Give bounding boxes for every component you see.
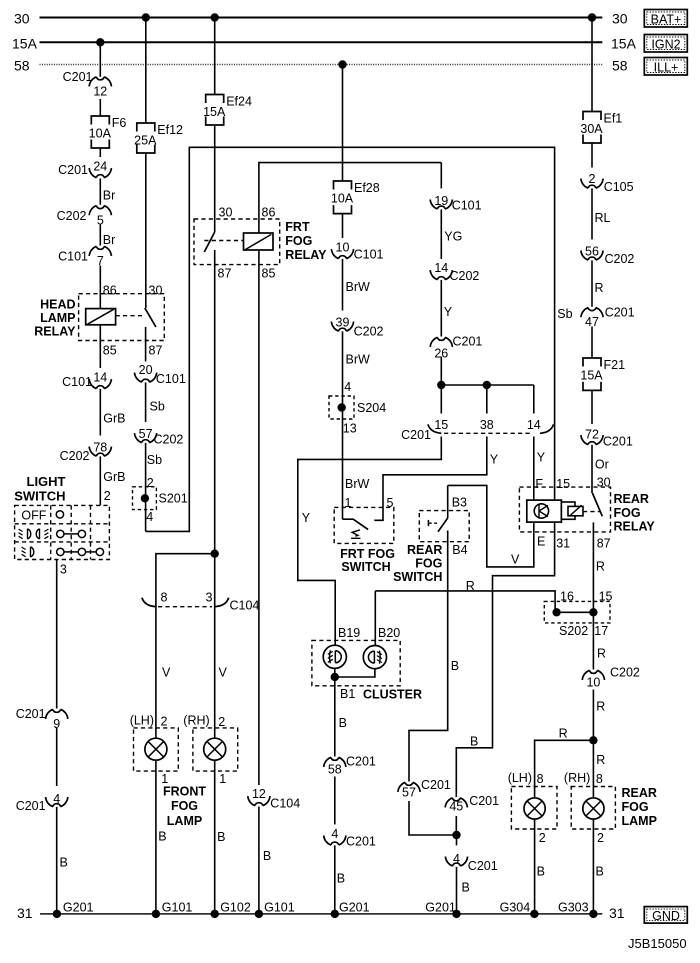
svg-text:C201: C201 xyxy=(469,794,499,808)
rear fog lamp RH dashed box xyxy=(571,787,615,830)
fuse F21 15A xyxy=(582,358,602,391)
V wire rear fog switch B3 to relay pin E xyxy=(448,485,534,567)
connector C104 pin 12 xyxy=(251,785,266,806)
svg-text:72: 72 xyxy=(585,428,599,442)
wire bus 58 to Ef28 xyxy=(342,65,344,182)
svg-text:10A: 10A xyxy=(331,192,354,206)
wire C201/58 to C201/4 xyxy=(334,777,336,846)
svg-text:58: 58 xyxy=(328,763,342,777)
wire to front fog RH xyxy=(214,554,216,728)
wire C201/47 to F21 xyxy=(591,327,593,359)
connector C105 pin 2 xyxy=(584,168,599,189)
svg-text:5: 5 xyxy=(387,496,394,510)
svg-text:RELAY: RELAY xyxy=(285,248,327,262)
svg-text:LAMP: LAMP xyxy=(622,814,657,828)
junction dot bus58 xyxy=(338,60,346,68)
wire B relay85 to ground G101 xyxy=(258,807,260,914)
svg-text:G303: G303 xyxy=(558,900,589,914)
svg-text:FOG: FOG xyxy=(622,800,649,814)
fuse Ef28 10A xyxy=(333,181,353,215)
front fog lamp LH bulb xyxy=(155,728,157,738)
rear fog relay contact blade xyxy=(592,493,602,516)
wire R S202/17 to C202/10 xyxy=(592,612,594,669)
wire Or C201/72 to rear fog relay 30 xyxy=(591,446,593,494)
connector C201 pin 24 xyxy=(93,157,108,178)
wire Ef24 to frt fog relay pin 30 xyxy=(214,125,216,232)
wire Ef12 to head lamp relay pin 30 xyxy=(145,153,147,308)
svg-text:15: 15 xyxy=(434,418,448,432)
svg-text:16: 16 xyxy=(560,589,574,603)
svg-text:C201: C201 xyxy=(453,335,483,349)
connector C202 pin 57 xyxy=(138,422,153,443)
terminal box ILL+ xyxy=(644,58,687,76)
svg-text:15A: 15A xyxy=(580,369,603,383)
head lamp relay dashed box xyxy=(79,294,165,341)
svg-text:R: R xyxy=(466,579,475,593)
svg-text:C101: C101 xyxy=(354,248,384,262)
svg-text:12: 12 xyxy=(252,787,266,801)
connector C201 pin 9 xyxy=(49,709,64,731)
svg-text:R: R xyxy=(559,727,568,741)
wire F6 to connector C201 pin 24 xyxy=(99,148,101,157)
wire C101/7 to head lamp relay pin 86 xyxy=(99,266,101,309)
cluster B19 fog indicator xyxy=(323,645,346,668)
svg-text:2: 2 xyxy=(218,715,225,729)
svg-text:REAR: REAR xyxy=(622,786,657,800)
svg-text:Sb: Sb xyxy=(150,400,165,414)
rear fog relay coil xyxy=(561,502,575,519)
svg-text:8: 8 xyxy=(537,772,544,786)
svg-text:30: 30 xyxy=(14,11,30,27)
svg-text:31: 31 xyxy=(17,905,33,921)
connector C201 pin 26 xyxy=(434,337,449,361)
svg-text:R: R xyxy=(596,753,605,767)
svg-text:14: 14 xyxy=(93,371,107,385)
svg-text:R: R xyxy=(596,700,605,714)
svg-text:C201: C201 xyxy=(346,834,376,848)
fuse Ef1 30A xyxy=(582,111,602,144)
svg-text:Y: Y xyxy=(302,511,311,525)
terminal box BAT+ xyxy=(644,10,687,28)
svg-text:25A: 25A xyxy=(134,134,157,148)
svg-text:FOG: FOG xyxy=(171,799,198,813)
svg-text:24: 24 xyxy=(93,160,107,174)
svg-text:G201: G201 xyxy=(63,900,94,914)
svg-text:Ef12: Ef12 xyxy=(157,123,183,137)
svg-text:C202: C202 xyxy=(605,252,635,266)
svg-text:12: 12 xyxy=(93,85,107,99)
svg-text:SWITCH: SWITCH xyxy=(393,570,442,584)
svg-text:R: R xyxy=(595,281,604,295)
frt fog relay contact blade xyxy=(204,232,214,252)
svg-text:BrW: BrW xyxy=(346,280,371,294)
svg-text:15A: 15A xyxy=(12,36,38,52)
svg-text:(LH): (LH) xyxy=(130,713,154,727)
svg-text:B: B xyxy=(537,865,545,879)
wire B to ground G201 left xyxy=(56,808,58,914)
rear fog relay pin 31 wire to B splice xyxy=(456,522,554,786)
svg-text:C201: C201 xyxy=(468,859,498,873)
svg-text:Sb: Sb xyxy=(147,453,162,467)
wire R C202/10 to junction xyxy=(592,690,594,741)
head lamp relay coil xyxy=(86,309,116,325)
svg-text:FOG: FOG xyxy=(285,234,312,248)
svg-text:87: 87 xyxy=(149,344,163,358)
svg-text:B: B xyxy=(451,659,459,673)
svg-text:J5B15050: J5B15050 xyxy=(628,936,687,951)
light switch park lamp icon row xyxy=(31,547,34,557)
svg-text:YG: YG xyxy=(444,230,462,244)
wire to rear fog RH xyxy=(592,740,594,786)
svg-text:2: 2 xyxy=(104,489,111,503)
frt fog relay pin 87 stub xyxy=(214,250,216,554)
ground G303 xyxy=(589,910,597,918)
svg-text:C201: C201 xyxy=(63,70,93,84)
wire 15A bus to F6 xyxy=(99,42,101,116)
connector C201 pin 4 lower xyxy=(327,824,342,845)
svg-text:13: 13 xyxy=(343,422,357,436)
ground G304 xyxy=(530,910,538,918)
wire Y C201/38 to frt fog switch pin 5 xyxy=(383,437,487,508)
wire C201/57 to splice junction xyxy=(409,801,457,835)
wire 86-line down to C101/19 xyxy=(440,163,442,210)
svg-text:2: 2 xyxy=(597,831,604,845)
wire R C202/56 to C201/47 xyxy=(591,261,593,307)
svg-text:G102: G102 xyxy=(220,900,251,914)
wire Ef1 to C105/2 xyxy=(591,143,593,189)
svg-text:15: 15 xyxy=(599,589,613,603)
svg-text:BAT+: BAT+ xyxy=(651,12,682,26)
wire BrW C202/39 to S204 xyxy=(342,332,344,519)
svg-text:15A: 15A xyxy=(203,105,226,119)
svg-text:GND: GND xyxy=(652,909,680,923)
svg-text:GrB: GrB xyxy=(103,470,125,484)
wire Br C201/24 to C202/5 xyxy=(99,179,101,205)
ground G201 right xyxy=(452,910,460,918)
junction dot bus30 Ef24 xyxy=(211,13,219,21)
wire C201/45 to splice junction xyxy=(455,786,457,797)
wire B to ground G201 right xyxy=(456,867,458,914)
head lamp relay pin 87 stub xyxy=(145,327,147,362)
svg-text:HEAD: HEAD xyxy=(40,297,75,311)
front fog lamp LH dashed box xyxy=(134,728,179,771)
junction dot on 15A line xyxy=(96,38,104,46)
svg-text:OFF: OFF xyxy=(21,508,46,522)
svg-text:RL: RL xyxy=(595,211,611,225)
wire head lamp relay 87 to C101/20 xyxy=(145,362,147,383)
svg-text:RELAY: RELAY xyxy=(614,519,656,533)
frt fog relay coil xyxy=(244,233,274,250)
svg-text:Sb: Sb xyxy=(557,307,572,321)
wire B1 cluster to C201/58 xyxy=(334,677,336,757)
rear fog relay coil-contact dashed link xyxy=(583,511,600,513)
svg-text:20: 20 xyxy=(139,363,153,377)
rear fog relay indicator bulb icon xyxy=(534,504,548,518)
wire Sb C202/57 to splice S201 xyxy=(145,444,147,532)
svg-text:G201: G201 xyxy=(425,900,456,914)
rear fog lamp LH dashed box xyxy=(511,787,557,830)
svg-text:Ef24: Ef24 xyxy=(226,95,252,109)
front fog lamp RH bulb xyxy=(214,728,216,738)
bus line 58 (ILL+) xyxy=(40,64,603,66)
rear fog switch dashed box xyxy=(419,511,469,542)
svg-text:17: 17 xyxy=(594,624,608,638)
connector C201 pin 72 xyxy=(584,424,599,445)
svg-text:31: 31 xyxy=(556,537,570,551)
svg-text:CLUSTER: CLUSTER xyxy=(363,687,422,701)
svg-text:B: B xyxy=(217,830,225,844)
svg-text:C201: C201 xyxy=(16,799,46,813)
svg-text:B: B xyxy=(263,849,271,863)
svg-text:30: 30 xyxy=(597,476,611,490)
svg-text:15: 15 xyxy=(556,477,570,491)
connector C101 pin 10 xyxy=(335,238,350,259)
bus line 15A (IGN2) xyxy=(40,41,603,43)
svg-text:GrB: GrB xyxy=(103,412,125,426)
svg-text:G201: G201 xyxy=(339,900,370,914)
svg-text:B3: B3 xyxy=(452,496,467,510)
svg-text:38: 38 xyxy=(480,418,494,432)
wire F21 to C201/72 xyxy=(591,390,593,445)
connector C201 pin 4 (pair) xyxy=(49,786,64,807)
svg-text:10: 10 xyxy=(336,241,350,255)
frt fog switch detent symbol xyxy=(351,530,360,539)
svg-text:F: F xyxy=(535,477,543,491)
svg-text:10: 10 xyxy=(586,676,600,690)
svg-text:(RH): (RH) xyxy=(564,771,590,785)
ground G201 left xyxy=(53,910,61,918)
svg-text:Y: Y xyxy=(444,305,453,319)
ground G101 second xyxy=(255,910,263,918)
cluster B20 fog indicator xyxy=(363,646,386,669)
connector C201 pin 57 lower xyxy=(401,782,416,800)
svg-text:C201: C201 xyxy=(401,428,431,442)
connector C202 pin 39 xyxy=(335,311,350,332)
wire C201/9 to C201/4 xyxy=(56,728,58,808)
svg-text:E: E xyxy=(537,534,545,548)
R wire relay 31/87 to cluster B20 xyxy=(375,591,555,612)
svg-text:C202: C202 xyxy=(60,449,90,463)
connector C202 pin 56 xyxy=(584,239,599,260)
svg-text:3: 3 xyxy=(206,591,213,605)
svg-text:G101: G101 xyxy=(162,900,193,914)
frt fog relay coil-contact dashed link xyxy=(204,240,243,242)
front fog lamp RH dashed box xyxy=(193,728,238,771)
connector C201 pin 58 xyxy=(327,757,342,777)
fuse Ef24 15A xyxy=(205,94,225,126)
connector C201 pin 45 xyxy=(449,798,464,814)
svg-text:C104: C104 xyxy=(270,797,300,811)
svg-text:30: 30 xyxy=(612,11,628,27)
frt fog switch pin 5 stub xyxy=(374,507,383,520)
svg-text:S202: S202 xyxy=(559,624,588,638)
connector C201 pin 12 xyxy=(93,77,108,99)
rear fog lamp RH bulb xyxy=(592,787,594,799)
wire relay 85 to light switch pin 2 xyxy=(99,369,101,505)
bus line 31 (GND) xyxy=(40,913,602,915)
frt fog relay dashed box xyxy=(194,219,280,265)
head lamp relay coil-contact dashed link xyxy=(116,315,144,317)
svg-text:14: 14 xyxy=(527,418,541,432)
splice S202 xyxy=(544,601,610,623)
svg-text:B: B xyxy=(60,856,68,870)
connector C101 pin 7 xyxy=(93,246,108,268)
svg-text:4: 4 xyxy=(344,380,351,394)
svg-text:B: B xyxy=(462,881,470,895)
terminal box GND xyxy=(644,907,687,924)
head lamp relay pin 85 wire xyxy=(99,325,101,369)
cluster B20 top wire from R line xyxy=(374,591,376,646)
R wire branch to rear fog LH xyxy=(535,740,594,786)
wire Y C201/15 to cluster B19 xyxy=(298,437,442,646)
svg-text:C201: C201 xyxy=(603,435,633,449)
svg-text:SWITCH: SWITCH xyxy=(14,489,65,504)
svg-text:LIGHT: LIGHT xyxy=(27,474,66,489)
wire Ef28 to C101/10 xyxy=(342,214,344,260)
svg-text:ILL+: ILL+ xyxy=(654,60,679,74)
cluster dashed box xyxy=(312,640,400,685)
junction dot bus30 Ef12 xyxy=(142,13,150,21)
svg-text:RELAY: RELAY xyxy=(34,325,76,339)
svg-text:Y: Y xyxy=(490,453,499,467)
svg-text:C202: C202 xyxy=(610,666,640,680)
junction dot bus30 Ef1 xyxy=(588,13,596,21)
svg-text:C101: C101 xyxy=(62,375,92,389)
svg-text:Br: Br xyxy=(103,233,116,247)
connector C101 pin 20 xyxy=(138,362,153,383)
wire bus 30 to Ef12 xyxy=(145,18,147,124)
svg-text:3: 3 xyxy=(60,563,67,577)
wire bus 30 to Ef1 xyxy=(591,18,593,112)
wire Y C202/14 to C201/26 xyxy=(440,281,442,337)
svg-text:8: 8 xyxy=(161,591,168,605)
svg-text:4: 4 xyxy=(331,827,338,841)
frt fog relay pin 86 wire up xyxy=(259,163,441,233)
svg-text:85: 85 xyxy=(262,267,276,281)
rear fog switch B4 wire to C201/57 xyxy=(409,531,448,782)
svg-text:G304: G304 xyxy=(500,900,531,914)
svg-text:F21: F21 xyxy=(604,358,626,372)
svg-text:FRONT: FRONT xyxy=(163,785,206,799)
frt fog relay pin 85 wire xyxy=(258,250,260,786)
wire B to ground G201 middle xyxy=(334,846,336,914)
svg-text:57: 57 xyxy=(402,786,416,800)
connector row C104 pins 8 and 3 xyxy=(142,598,156,607)
wire S201 to illumination feed riser xyxy=(146,147,555,531)
svg-text:FOG: FOG xyxy=(614,506,641,520)
svg-text:C101: C101 xyxy=(156,372,186,386)
svg-text:V: V xyxy=(219,666,228,680)
fuse Ef12 25A xyxy=(136,123,156,154)
svg-text:C202: C202 xyxy=(450,269,480,283)
svg-text:4: 4 xyxy=(146,510,153,524)
svg-text:C104: C104 xyxy=(230,599,260,613)
cluster B20 bottom link xyxy=(335,669,375,677)
svg-text:R: R xyxy=(596,560,605,574)
svg-text:8: 8 xyxy=(596,772,603,786)
svg-text:REAR: REAR xyxy=(614,492,649,506)
svg-text:87: 87 xyxy=(218,267,232,281)
svg-text:30A: 30A xyxy=(580,122,603,136)
svg-text:V: V xyxy=(162,666,171,680)
head lamp relay contact blade xyxy=(145,308,156,327)
svg-text:15A: 15A xyxy=(611,36,637,52)
svg-text:B: B xyxy=(339,716,347,730)
svg-text:B20: B20 xyxy=(378,626,400,640)
junction dot front fog feed split xyxy=(211,550,219,558)
svg-text:45: 45 xyxy=(449,800,463,814)
rear fog relay dashed box xyxy=(519,487,610,532)
svg-text:58: 58 xyxy=(612,58,628,74)
svg-text:SWITCH: SWITCH xyxy=(341,560,390,574)
svg-text:2: 2 xyxy=(161,715,168,729)
svg-text:BrW: BrW xyxy=(346,353,371,367)
svg-text:C201: C201 xyxy=(16,707,46,721)
connector C201 pin 4 right xyxy=(456,835,458,847)
connector C201 pin 47 xyxy=(584,308,599,330)
svg-text:14: 14 xyxy=(434,261,448,275)
wire branch to front fog LH xyxy=(156,554,215,728)
splice S204 xyxy=(329,396,354,419)
svg-text:B4: B4 xyxy=(452,543,467,557)
rear fog switch contact symbol xyxy=(427,520,429,526)
svg-text:C201: C201 xyxy=(58,163,88,177)
fuse F6 10A xyxy=(90,116,110,149)
svg-text:2: 2 xyxy=(539,831,546,845)
wire Y C201/14 to rear fog relay pin F xyxy=(533,437,535,501)
svg-text:(LH): (LH) xyxy=(508,771,532,785)
svg-text:C202: C202 xyxy=(354,325,384,339)
svg-text:B1: B1 xyxy=(340,687,355,701)
wire light switch pin 3 to C201/9 xyxy=(56,560,58,709)
svg-text:Or: Or xyxy=(595,457,609,471)
svg-text:LAMP: LAMP xyxy=(167,814,202,828)
wire BrW C101/10 to C202/39 xyxy=(342,260,344,333)
rear fog switch B3 stub and blade xyxy=(447,485,449,518)
svg-text:V: V xyxy=(511,553,520,567)
svg-text:Ef28: Ef28 xyxy=(354,181,380,195)
svg-text:58: 58 xyxy=(14,58,30,74)
svg-text:Br: Br xyxy=(103,189,116,203)
svg-text:C101: C101 xyxy=(58,250,88,264)
svg-text:B: B xyxy=(158,830,166,844)
svg-text:B: B xyxy=(596,865,604,879)
svg-text:86: 86 xyxy=(103,284,117,298)
svg-text:C201: C201 xyxy=(346,755,376,769)
svg-text:IGN2: IGN2 xyxy=(651,37,680,51)
svg-text:F6: F6 xyxy=(112,116,127,130)
svg-text:30: 30 xyxy=(219,206,233,220)
connector C101 pin 14 xyxy=(93,368,108,389)
svg-text:B: B xyxy=(337,872,345,886)
svg-text:1: 1 xyxy=(219,772,226,786)
connector C202 pin 78 xyxy=(93,436,108,457)
light switch dashed box xyxy=(15,505,110,559)
terminal box IGN2 xyxy=(644,35,687,53)
svg-text:31: 31 xyxy=(609,905,625,921)
wire Sb C101/20 to C202/57 xyxy=(145,383,147,444)
wire bus 30 to Ef24 xyxy=(214,18,216,95)
svg-text:R: R xyxy=(597,647,606,661)
svg-text:S204: S204 xyxy=(357,401,386,415)
svg-text:86: 86 xyxy=(262,206,276,220)
svg-text:LAMP: LAMP xyxy=(40,311,75,325)
junction dot rear fog lamps xyxy=(589,736,597,744)
svg-text:C202: C202 xyxy=(57,209,87,223)
wire YG C101/19 to C202/14 xyxy=(440,210,442,281)
rear fog relay indicator box xyxy=(527,500,562,522)
cluster junction dot xyxy=(331,673,339,681)
